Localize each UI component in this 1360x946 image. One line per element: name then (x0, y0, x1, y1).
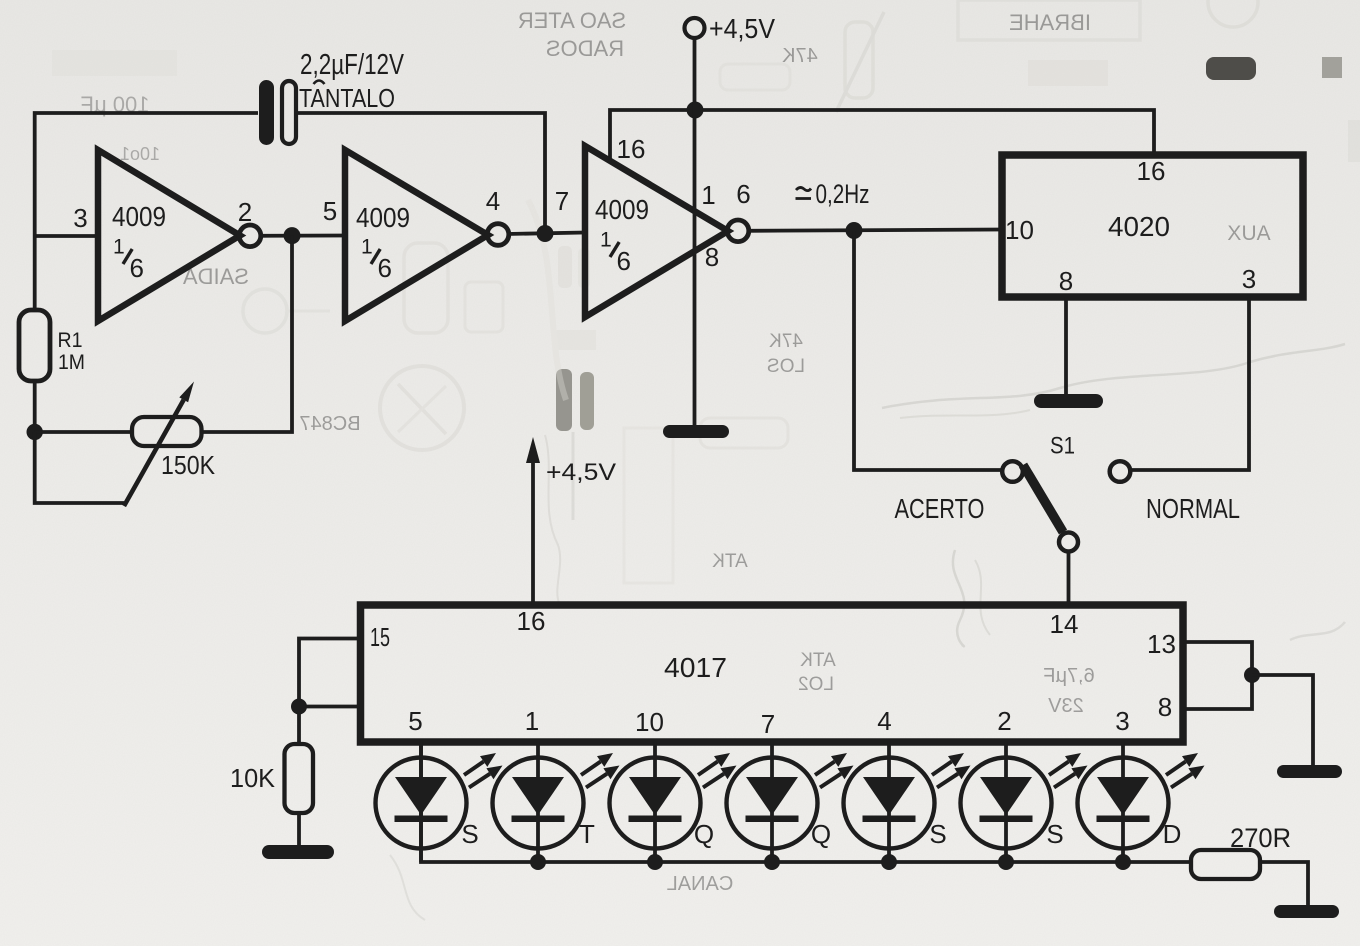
svg-text:IBRAHE: IBRAHE (1009, 10, 1091, 35)
svg-text:4009: 4009 (595, 194, 649, 225)
svg-text:47K: 47K (769, 331, 803, 352)
svg-text:+4,5V: +4,5V (546, 459, 616, 486)
svg-text:4009: 4009 (112, 201, 166, 232)
svg-text:10o1: 10o1 (120, 144, 160, 164)
svg-text:270R: 270R (1230, 823, 1291, 853)
svg-text:6: 6 (736, 179, 750, 209)
svg-text:4017: 4017 (664, 652, 727, 683)
svg-text:CANAL: CANAL (667, 873, 734, 895)
svg-text:T: T (579, 819, 595, 849)
svg-text:S: S (461, 819, 478, 849)
svg-text:3: 3 (1242, 264, 1256, 294)
svg-text:6,7µF: 6,7µF (1043, 665, 1095, 687)
svg-text:1: 1 (525, 706, 539, 736)
svg-text:S1: S1 (1050, 433, 1075, 460)
svg-text:6: 6 (617, 246, 631, 276)
svg-text:7: 7 (761, 709, 775, 739)
svg-text:13: 13 (1147, 629, 1176, 659)
svg-text:S: S (929, 819, 946, 849)
svg-text:8: 8 (1158, 692, 1172, 722)
svg-text:SAO ATER: SAO ATER (518, 8, 626, 33)
svg-text:RADOS: RADOS (546, 36, 624, 61)
svg-text:ATK: ATK (800, 650, 836, 671)
svg-text:4: 4 (486, 186, 500, 216)
svg-text:3: 3 (73, 203, 87, 233)
svg-text:BC847: BC847 (299, 413, 360, 435)
svg-text:15: 15 (370, 622, 390, 652)
svg-text:2: 2 (997, 706, 1011, 736)
svg-text:5: 5 (408, 706, 422, 736)
svg-text:Q: Q (694, 819, 714, 849)
svg-text:ACERTO: ACERTO (895, 493, 985, 524)
svg-text:16: 16 (1137, 156, 1166, 186)
svg-text:2,2µF/12V: 2,2µF/12V (300, 49, 404, 81)
svg-text:4009: 4009 (356, 202, 410, 233)
svg-text:8: 8 (1059, 266, 1073, 296)
svg-text:+4,5V: +4,5V (709, 13, 775, 44)
svg-text:14: 14 (1050, 609, 1079, 639)
svg-text:D: D (1163, 819, 1182, 849)
svg-text:150K: 150K (161, 450, 216, 480)
svg-text:16: 16 (617, 134, 646, 164)
svg-text:4020: 4020 (1108, 211, 1170, 242)
svg-text:NORMAL: NORMAL (1146, 493, 1240, 524)
svg-text:S: S (1046, 819, 1063, 849)
svg-text:10: 10 (635, 707, 664, 737)
svg-text:R1: R1 (58, 329, 83, 352)
svg-text:7: 7 (555, 186, 569, 216)
svg-text:23V: 23V (1048, 695, 1084, 717)
svg-text:6: 6 (378, 253, 392, 283)
svg-text:TANTALO: TANTALO (299, 83, 395, 113)
svg-text:LO2: LO2 (798, 674, 834, 695)
svg-text:1: 1 (600, 229, 612, 252)
svg-text:1: 1 (361, 236, 373, 259)
svg-text:AUX: AUX (1227, 222, 1270, 245)
svg-text:Q: Q (811, 819, 831, 849)
svg-text:0,2Hz: 0,2Hz (816, 179, 870, 209)
svg-text:3: 3 (1115, 706, 1129, 736)
svg-text:2: 2 (238, 197, 252, 227)
svg-text:4: 4 (877, 706, 891, 736)
svg-text:10: 10 (1005, 215, 1034, 245)
svg-text:6: 6 (130, 253, 144, 283)
svg-text:10K: 10K (230, 763, 276, 793)
svg-text:5: 5 (323, 196, 337, 226)
svg-text:ATK: ATK (712, 551, 748, 572)
svg-text:LOS: LOS (767, 356, 805, 377)
svg-text:1M: 1M (58, 351, 85, 374)
svg-text:16: 16 (517, 606, 546, 636)
svg-text:1: 1 (113, 236, 125, 259)
svg-text:1: 1 (701, 180, 715, 210)
svg-text:8: 8 (705, 242, 719, 272)
svg-text:47K: 47K (782, 45, 818, 67)
